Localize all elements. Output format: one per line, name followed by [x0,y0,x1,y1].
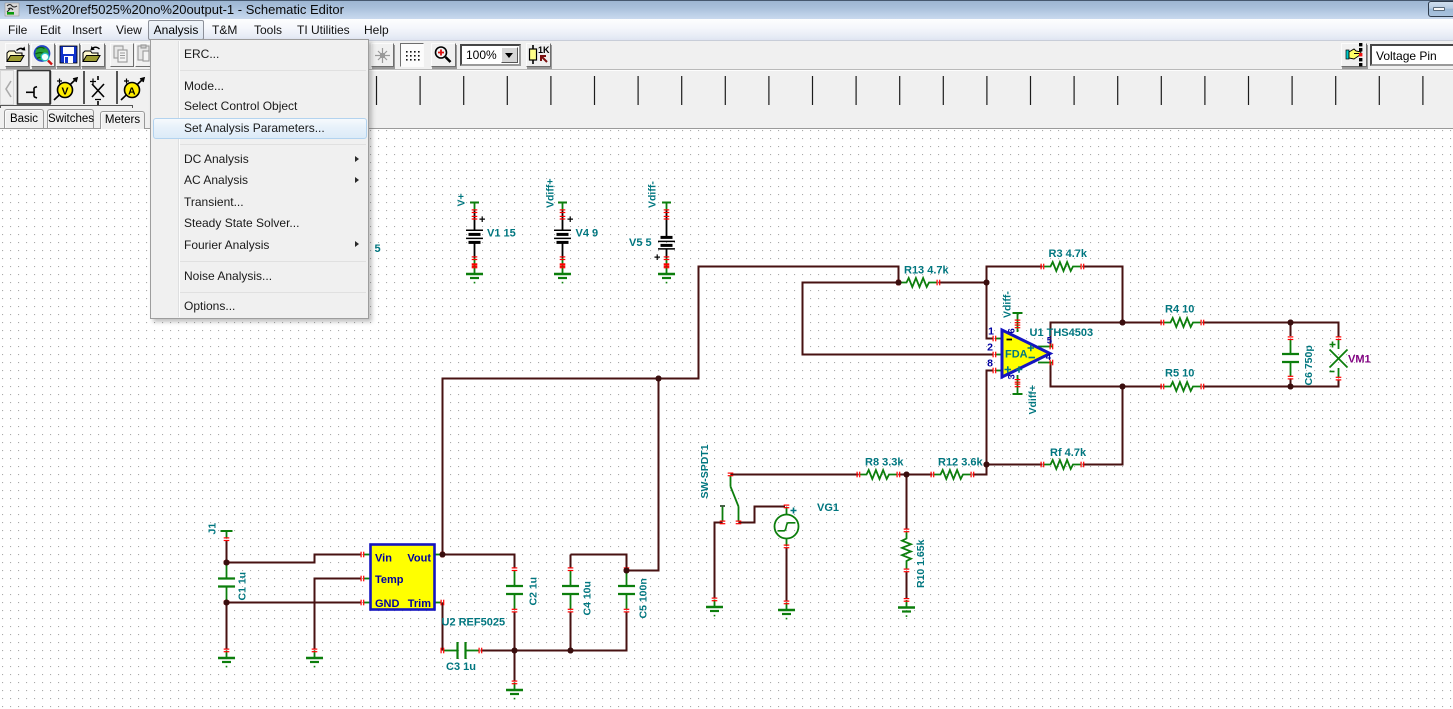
op-amp U1 THS4503 [987,291,1093,415]
icon last component (disabled crosshair) [375,48,390,63]
wire R5 to VM1 bottom [1203,380,1339,387]
wire J1 to C1 top [226,540,228,563]
node K [1120,320,1126,326]
ground Temp [306,649,323,668]
toolbar 1 [0,42,1453,69]
resistor R8 [857,457,905,480]
wire R13 right [939,282,987,284]
wire C2 bottom [514,612,516,651]
wire Trim to C3 [442,603,444,651]
wire R8 left to switch [731,474,859,476]
capacitor C6 [1282,336,1315,385]
ground V1 [466,265,483,284]
wire C4 bottom [570,612,572,651]
wire VG1 to ground [786,548,788,601]
node D [568,648,574,654]
icon component probe [26,87,37,98]
wire R10 to ground [906,572,908,599]
wire Vout loop to R13 [443,267,899,555]
ground C1 [218,649,235,668]
resistor R13 [897,265,950,288]
node B [224,600,230,606]
icon copy (disabled) [114,46,127,62]
icon open folder import [83,46,100,62]
node N [1288,384,1294,390]
wire C4-C5 top rail [571,555,627,571]
wire jog to R12 [973,465,987,475]
IC U2 REF5025 [361,545,506,629]
toolbar2 empty button separators [377,76,1423,105]
voltage source V5 [654,203,675,268]
wire R13 node to pin2 [803,283,994,355]
wire to R10 top [906,475,908,530]
ground VG1 [778,601,795,620]
wire R8 right [899,474,907,476]
ground rail [506,681,523,700]
connector J1 [207,523,233,541]
wire to Rf [987,464,1043,466]
wire R4 to VM1 top [1203,323,1339,337]
icon component open circuit [90,76,104,105]
node J [984,462,990,468]
capacitor C3 [441,642,483,673]
component button separators [51,71,118,104]
wire to R4 [1123,322,1163,324]
icon 1K interactive [530,45,551,64]
wire pin1 riser to R3 [987,267,1043,339]
junction dots top copies [224,280,1294,654]
wire C5 top riser [627,379,659,571]
wire C1 top to Vin [227,555,362,563]
title bar app icon [5,3,19,16]
icon zoom [436,47,451,62]
resistor Rf [1041,447,1087,469]
node F [656,376,662,382]
node I [904,472,910,478]
icon chevron left (disabled) [6,81,11,97]
ground switch [706,598,723,617]
icon open from web [35,46,53,65]
menu bar [0,19,1453,41]
wire R3 right down [1083,267,1123,323]
wire open throw to ground [715,523,723,599]
title bar [0,0,1453,19]
icon open file [7,47,25,62]
node L [1120,384,1126,390]
resistor R5 [1161,368,1205,392]
wire C6 bottom lead [1290,379,1292,387]
pressed probe button border [18,71,51,105]
ground R10 [898,598,915,617]
icon component voltmeter [54,78,77,100]
ground V4 [554,265,571,284]
resistor R3 [1041,248,1088,271]
wire C4 top lead [570,555,572,569]
node M [1288,320,1294,326]
meter VM1 [1330,336,1371,380]
switch SW-SPDT1 [699,444,741,524]
node G [896,280,902,286]
source VG1 [775,502,840,548]
dropdown menu [150,39,369,319]
capacitor C4 [562,567,594,615]
ground V5 [658,265,675,284]
wire switch to VG1 [739,507,786,523]
resistor R12 [931,457,984,480]
capacitor C5 [618,567,650,618]
wire to R5 [1123,386,1163,388]
capacitor C1 [218,561,249,605]
node Vout [440,552,446,558]
wire R12 left [907,474,933,476]
wire pin8 down [987,371,994,465]
tabs [0,108,1453,129]
wire rail to ground [514,651,516,682]
wire out+ up [1051,323,1123,347]
wire C6 top lead [1290,323,1292,337]
wire bottom rail C3-C5 [481,612,627,651]
toolbar 2 [0,69,1453,108]
node A [224,560,230,566]
icon select voltage pin hand [1346,43,1362,66]
icon grid toggle [406,51,420,61]
wire Vout to C2 top [443,555,515,569]
wire C1 bottom to ground [226,603,228,650]
resistor R10 [902,529,927,589]
voltage source V4 [554,203,573,268]
wire Rf right up [1083,387,1123,465]
icon component ammeter [121,78,144,100]
wire C1 bottom to GND pin [227,602,362,604]
voltage source V1 [466,203,485,268]
capacitor C2 [506,567,540,612]
icon save [60,46,77,63]
icon paste (disabled) [138,45,149,61]
node E [624,568,630,574]
node C [512,648,518,654]
resistor R4 [1161,304,1205,328]
node H [984,280,990,286]
wire out- down [1051,363,1123,387]
wire Temp to ground [315,579,362,650]
